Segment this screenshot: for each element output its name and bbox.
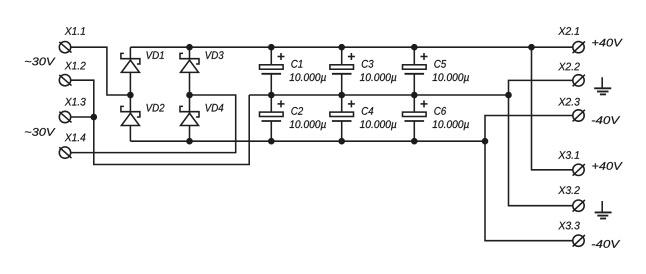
junction C4 on -40V bus bbox=[338, 138, 345, 145]
wire X1.3 stub bbox=[71, 116, 94, 118]
net label -40V at X3.3 bbox=[592, 240, 620, 248]
terminal X1.3 bbox=[59, 98, 85, 123]
wire X2.3 / X3.3 -40V feeder bbox=[485, 116, 573, 241]
wire X1.4 to bridge right midpoint bbox=[71, 95, 236, 153]
junction C5 on +40V bus bbox=[411, 44, 418, 51]
wire X2.2 / X3.2 ground feeder bbox=[509, 80, 573, 205]
ground symbol at X2.2 bbox=[594, 77, 611, 94]
capacitor C1 10.000u bbox=[260, 53, 326, 83]
terminal X2.1 bbox=[558, 27, 585, 53]
net label -40V at X2.3 bbox=[592, 116, 620, 124]
junction C3 on +40V bus bbox=[338, 44, 345, 51]
wire middle 0V bus bbox=[249, 94, 508, 96]
net label ~30V lower bbox=[25, 128, 56, 136]
junction C4 on 0V bus bbox=[338, 92, 345, 99]
junction bridge left midpoint bbox=[127, 92, 134, 99]
terminal X3.3 bbox=[558, 222, 585, 247]
wire X3.1 +40V feeder bbox=[532, 47, 573, 170]
wire bottom -40V bus bbox=[130, 140, 485, 142]
diode VD2 (schottky) bbox=[121, 104, 165, 126]
wire C3/C4 branch bbox=[341, 47, 343, 141]
terminal X2.3 bbox=[558, 98, 585, 122]
junction C2 on -40V bus bbox=[268, 138, 275, 145]
net label +40V at X2.1 bbox=[592, 39, 622, 47]
capacitor C5 10.000u bbox=[403, 53, 469, 83]
capacitor C3 10.000u bbox=[330, 53, 396, 83]
net label +40V at X3.1 bbox=[592, 162, 622, 170]
ground symbol at X3.2 bbox=[595, 201, 612, 219]
terminal X2.2 bbox=[558, 63, 585, 87]
junction X3.1 feeder on +40V bus bbox=[528, 44, 535, 51]
terminal X1.4 bbox=[59, 134, 85, 159]
terminal X1.2 bbox=[59, 62, 85, 86]
terminal X1.1 bbox=[59, 27, 85, 53]
junction C6 on -40V bus bbox=[411, 138, 418, 145]
wire bridge left branch bbox=[129, 47, 131, 141]
junction X1.2/X1.3 node bbox=[91, 114, 98, 121]
diode VD4 (schottky) bbox=[180, 104, 223, 126]
junction C6 on 0V bus bbox=[411, 92, 418, 99]
net label ~30V upper bbox=[25, 58, 56, 66]
capacitor C4 10.000u bbox=[330, 100, 396, 130]
junction C2 on 0V bus bbox=[268, 92, 275, 99]
junction bridge right midpoint bbox=[186, 92, 193, 99]
junction -40V feeder on -40V bus bbox=[482, 138, 489, 145]
capacitor C2 10.000u bbox=[260, 100, 326, 130]
diode VD3 (schottky) bbox=[180, 51, 224, 72]
wire C1/C2 branch bbox=[270, 47, 272, 141]
diode VD1 (schottky) bbox=[121, 51, 164, 72]
capacitor C6 10.000u bbox=[403, 100, 469, 130]
wire C5/C6 branch bbox=[413, 47, 415, 141]
junction VD4 bottom on -40V bus bbox=[186, 138, 193, 145]
junction VD3 top on +40V bus bbox=[186, 44, 193, 51]
terminal X3.2 bbox=[558, 186, 585, 211]
wire X1.2 down to X1.3 node and to 0V bus bbox=[71, 80, 250, 164]
junction ground feeder on 0V bus bbox=[505, 92, 512, 99]
wire bridge right branch bbox=[189, 47, 191, 141]
terminal X3.1 bbox=[558, 151, 585, 176]
wire top +40V bus bbox=[130, 46, 573, 48]
wire X1.1 to bridge left midpoint bbox=[71, 47, 131, 95]
junction C1 on +40V bus bbox=[268, 44, 275, 51]
